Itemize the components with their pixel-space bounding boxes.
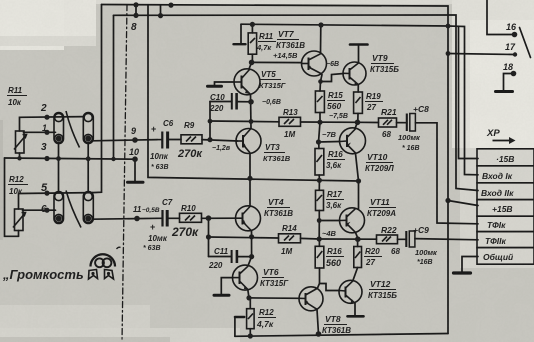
wire VT10 emitter up xyxy=(355,122,358,128)
transistor VT11 xyxy=(340,208,365,233)
wire vertical from bus2 to shield wire xyxy=(113,15,115,159)
wire bus1-bus2 tie b xyxy=(160,5,162,16)
node dots ch2 xyxy=(206,215,212,221)
wire shield bus horizontal xyxy=(5,158,136,159)
wire R15 bottom to line xyxy=(319,113,321,123)
transistor VT12 xyxy=(339,280,362,303)
node dots rail xyxy=(247,176,252,181)
transistor VT4 xyxy=(236,206,261,231)
transistor VT10 xyxy=(340,128,366,154)
transistor VT7 xyxy=(302,51,327,76)
wire C11 left lead xyxy=(209,256,232,258)
wire R12a wiper stub xyxy=(234,317,236,336)
jack contact dots xyxy=(56,136,62,142)
wire jack mid contact b xyxy=(87,144,89,192)
wire C8 to TFIk pin xyxy=(415,123,478,224)
headphones icon xyxy=(89,254,116,279)
wire +supply rail ch1 xyxy=(241,24,448,26)
wire R12a top lead xyxy=(249,298,251,309)
label VT6 xyxy=(260,267,289,288)
capacitor C11 xyxy=(232,250,237,263)
node dots right top xyxy=(446,24,451,29)
wire top bus 2 xyxy=(114,15,479,191)
label R12a xyxy=(256,308,276,329)
resistor R19 xyxy=(354,92,363,113)
decorative mark near headphones xyxy=(117,247,121,249)
XP arrow xyxy=(493,137,516,144)
wire jack2 out to node 11 xyxy=(93,217,159,220)
capacitor C8 xyxy=(407,114,416,132)
label VT5 xyxy=(259,70,286,90)
label R20 xyxy=(364,247,382,267)
wire C10 right lead xyxy=(237,101,251,103)
wire output node to R21 xyxy=(358,121,379,123)
wire jack1 out to node 9 xyxy=(93,140,158,141)
wire R12 wiper to terminal 6 xyxy=(23,209,56,211)
resistor R17 xyxy=(316,190,324,210)
resistor R16b xyxy=(315,246,324,268)
wire R16a bottom to rail xyxy=(318,175,320,180)
supply stub VT9 xyxy=(350,45,368,63)
wire terminal18 to ground xyxy=(504,74,514,91)
wire R11a wiper stub xyxy=(240,24,242,43)
wire VT11 collector down xyxy=(356,233,359,240)
potentiometer R11 xyxy=(14,131,27,153)
transistor VT8 xyxy=(299,287,323,311)
wire VT6 collector up xyxy=(248,257,252,266)
wire VT5 base to ground xyxy=(215,82,235,85)
wire VT3 emitter to rail xyxy=(249,154,251,179)
wire R12 bottom xyxy=(18,231,20,237)
label VT10 xyxy=(365,152,394,173)
wire R17 top lead xyxy=(318,181,320,190)
resistor R10 xyxy=(180,213,202,222)
node 9 dot xyxy=(132,137,138,143)
ground VT6 base xyxy=(214,294,229,297)
capacitor C7 xyxy=(158,210,167,227)
wire VT4 collector to rail xyxy=(249,178,251,206)
wire R22 to C9 xyxy=(398,238,407,240)
wire R11a bottom lead xyxy=(251,54,253,62)
transistor VT3 xyxy=(236,129,261,154)
jack contact LR xyxy=(83,192,93,224)
wire ground bus left xyxy=(19,153,21,158)
label R11 pot xyxy=(7,86,27,107)
resistor R12a vertical xyxy=(247,309,255,329)
wire VT7 emitter up xyxy=(320,25,322,54)
wire R11a top lead xyxy=(251,24,253,33)
wire bottom rail ch2 xyxy=(235,334,448,337)
wire node A to VT7 base xyxy=(252,61,302,63)
resistor R21 xyxy=(379,118,397,127)
wire C10 left lead xyxy=(210,101,232,103)
jack contact LL xyxy=(54,192,64,224)
wire feedback line R13 xyxy=(210,120,279,123)
wire VT6 base to ground xyxy=(221,278,233,294)
capacitor C6 xyxy=(157,132,168,149)
node 10 dot xyxy=(132,156,138,162)
switch slash lower jack xyxy=(66,191,81,228)
wire left rail down xyxy=(5,158,19,236)
wire rail to -15V pin xyxy=(448,26,478,159)
wire R12 top to terminal 5 xyxy=(19,193,93,209)
wire R16a leads xyxy=(318,142,320,149)
wire VT8 collector to R16b and VT12 base xyxy=(318,268,320,288)
label VT3 xyxy=(263,143,291,163)
wire R9 to VT3 base xyxy=(202,140,238,141)
wire C11 right lead xyxy=(237,256,252,258)
wire node to R22 xyxy=(319,238,376,240)
wire VT5 emitter to VT3 collector xyxy=(250,95,253,129)
ground terminal18 xyxy=(496,90,513,93)
label R12 pot xyxy=(8,175,28,196)
resistor R13 xyxy=(279,117,301,126)
wire C6 to R9 xyxy=(169,139,182,141)
ground node 10 xyxy=(128,181,144,184)
switch slash upper jack xyxy=(66,111,80,148)
node 11 dot xyxy=(134,216,140,222)
wire bus1-bus2 tie a xyxy=(135,5,137,16)
label VT12 xyxy=(368,279,397,300)
resistor R22 xyxy=(377,235,398,244)
node dots top buses xyxy=(133,2,138,7)
capacitor C10 xyxy=(232,93,237,110)
wire R14 to node xyxy=(301,237,320,240)
wire R11 wiper to terminal 1 xyxy=(24,131,56,133)
switch lever 16-17 xyxy=(520,28,531,58)
wire C10 tap column xyxy=(209,102,211,140)
wire R19 to output node xyxy=(357,113,359,122)
node dots ch1 xyxy=(250,22,255,27)
wire C7 to R10 xyxy=(167,217,179,219)
wiper bar R12a xyxy=(235,316,244,318)
label VT8 xyxy=(322,314,351,335)
wire R12a bottom lead xyxy=(249,329,251,337)
label VT9 xyxy=(370,53,399,74)
wire terminal16 up xyxy=(487,0,515,35)
wire VT8 emitter down xyxy=(317,310,319,335)
resistor R20 xyxy=(354,247,362,268)
wire C9 to TFIIk pin xyxy=(415,239,478,240)
node dots shield bus xyxy=(17,156,21,160)
wire VT4 emitter down xyxy=(251,231,253,257)
resistor R14 xyxy=(279,234,301,243)
wire VT5 collector up xyxy=(249,62,252,69)
resistor R16a xyxy=(315,149,324,176)
label R16a xyxy=(326,150,345,170)
transistor VT9 xyxy=(343,62,366,85)
wire +15V pin tap xyxy=(448,201,478,206)
jack contact UL xyxy=(54,113,64,144)
wire C11 tap column xyxy=(208,218,210,256)
wire pot R11 top to jack xyxy=(20,117,84,131)
resistor R9 xyxy=(181,135,202,144)
potentiometer R12 xyxy=(13,209,26,231)
ground VT5 base xyxy=(208,85,222,88)
node dots terminals left xyxy=(44,115,49,120)
node dots bottom rail xyxy=(248,333,253,338)
wire VT7 collector to VT9 base xyxy=(321,74,344,82)
wire VT10 collector down to rail xyxy=(356,154,359,182)
wire VT12 base link xyxy=(320,284,340,291)
resistor R15 xyxy=(315,91,324,113)
label VT7 xyxy=(276,29,305,50)
transistor VT5 xyxy=(234,69,260,95)
wire top bus 1 xyxy=(102,5,449,334)
wire jack mid contact a xyxy=(58,144,60,192)
wire VT11 emitter up to rail xyxy=(358,181,360,209)
jack contact UR xyxy=(83,113,93,144)
wire VT7 collector node xyxy=(320,75,322,92)
wire VT11 node to R14 line xyxy=(318,221,320,240)
wire node to VT8 base xyxy=(249,297,300,299)
wire R16b top xyxy=(318,239,320,246)
wire R20 top lead xyxy=(357,239,359,246)
wire R20 bottom to VT12 xyxy=(353,268,358,281)
wire R10 to VT4 base xyxy=(202,217,236,219)
wiper bar R11a xyxy=(234,43,246,45)
wire rail to Vhod Ik pin xyxy=(459,26,479,175)
label R15 xyxy=(327,91,345,111)
label VT4 xyxy=(264,197,293,218)
wire R14 line xyxy=(209,237,279,238)
connector XP boxes xyxy=(477,149,534,264)
label R11a xyxy=(256,32,276,52)
ground Obshchiy xyxy=(454,271,471,274)
wire VT9 emitter to R19 xyxy=(357,85,359,92)
wire terminal17 xyxy=(448,54,515,55)
label R17 xyxy=(326,190,344,210)
label R16b xyxy=(326,247,344,268)
scanner smudges xyxy=(0,337,170,342)
label R19 xyxy=(365,92,383,112)
resistor R11a vertical xyxy=(248,33,256,54)
wire vertical bus1 to emitter rail xyxy=(148,5,359,181)
wire R21 to C8 xyxy=(397,122,407,124)
wire Obshchiy pin to ground xyxy=(462,257,478,272)
label VT11 xyxy=(367,197,396,218)
wire R15col to VT10 base node xyxy=(319,122,340,142)
transistor VT6 xyxy=(233,265,258,290)
wire R17 bottom to VT11 base node xyxy=(319,211,340,221)
supply stub VT12 xyxy=(348,303,364,316)
wire vertical from bus1 to lower jack xyxy=(93,5,102,193)
shield line (dash-dot) xyxy=(122,5,127,342)
capacitor C9 xyxy=(406,231,415,247)
wire VT6 emitter to node xyxy=(248,290,249,298)
wire R13 to output node xyxy=(301,121,358,123)
wire node10 to ground xyxy=(134,159,136,181)
